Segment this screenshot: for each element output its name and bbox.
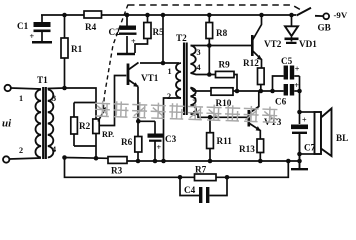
diode VD1 (285, 15, 318, 49)
svg-text:5: 5 (193, 94, 197, 103)
svg-text:R2: R2 (79, 121, 91, 131)
node C4 branch right (225, 175, 230, 180)
wire T2 pin2 down to ground rail (164, 98, 182, 161)
svg-text:R12: R12 (243, 58, 259, 68)
resistor R7 (195, 165, 217, 181)
resistor R1 (61, 15, 83, 88)
resistor R4 (84, 11, 102, 32)
svg-text:+: + (295, 65, 300, 74)
node output tee (297, 110, 302, 115)
resistor R8 (206, 15, 228, 75)
switch and battery terminal (297, 8, 348, 33)
node midpoint riser (270, 89, 275, 94)
watermark company text (95, 101, 278, 123)
svg-text:1: 1 (19, 94, 23, 103)
resistor R6 (121, 121, 142, 161)
capacitor C7 (291, 116, 316, 170)
svg-text:R3: R3 (111, 166, 123, 176)
svg-text:R7: R7 (195, 165, 207, 175)
node R11 top (208, 115, 213, 120)
potentiometer RP (74, 103, 114, 159)
svg-text:T2: T2 (176, 33, 187, 43)
resistor R13 (239, 139, 264, 161)
wire feedback rail (65, 158, 289, 178)
wire R2 RP bottoms (74, 145, 97, 147)
svg-text:R13: R13 (239, 144, 255, 154)
svg-text:ui: ui (2, 118, 12, 130)
capacitor C1 (17, 15, 52, 42)
node output riser C6 (297, 89, 302, 94)
wire VT1 emitter down (137, 87, 139, 122)
svg-text:R8: R8 (216, 28, 228, 38)
wire emitter node to C3 (138, 120, 155, 122)
resistor R10 (191, 88, 234, 109)
svg-text:C6: C6 (275, 97, 287, 107)
input terminal top (5, 85, 42, 91)
svg-text:R11: R11 (217, 136, 233, 146)
svg-text:C1: C1 (17, 21, 29, 31)
svg-text:3: 3 (197, 48, 201, 57)
dashed coupling line to volume pot (103, 5, 128, 113)
wire VT1 collector to T2 pin1 (140, 62, 179, 64)
svg-text:+: + (157, 143, 162, 152)
svg-text:C4: C4 (184, 185, 196, 195)
capacitor C2 (109, 15, 137, 54)
wire T1 secondary top (48, 88, 97, 103)
svg-text:VT1: VT1 (141, 73, 159, 83)
svg-text:VD1: VD1 (299, 39, 317, 49)
node collector junction (161, 61, 166, 66)
svg-text:3: 3 (52, 94, 56, 103)
node C4 branch left (178, 175, 183, 180)
speaker BL (315, 109, 349, 157)
svg-text:4: 4 (197, 63, 201, 72)
node R9 riser on midpoint wire (235, 89, 240, 94)
svg-text:+: + (30, 32, 35, 41)
transistor VT2 (252, 15, 281, 68)
wire output to speaker top (300, 111, 315, 113)
transistor VT1 (128, 63, 159, 88)
svg-text:BL: BL (336, 133, 348, 143)
resistor R2 (71, 103, 91, 147)
transformer T1 (19, 75, 56, 159)
transformer T2 (167, 33, 201, 118)
capacitor C4 (180, 177, 227, 203)
svg-text:4: 4 (52, 145, 56, 154)
dashed coupling line top (128, 5, 301, 10)
svg-text:2: 2 (19, 146, 23, 155)
resistor R5 (135, 15, 164, 53)
svg-text:+: + (294, 81, 299, 90)
wire T2 pin6 to VT3 base (191, 114, 249, 117)
svg-text:C5: C5 (281, 56, 293, 66)
svg-text:C3: C3 (165, 134, 177, 144)
wire midpoint to C5 (273, 76, 284, 91)
wire rail drop to collector node (162, 15, 164, 63)
node R8 foot (207, 43, 212, 48)
svg-text:R1: R1 (71, 44, 83, 54)
capacitor C5 (281, 56, 300, 80)
svg-text:-9V: -9V (334, 10, 348, 20)
node ground rail junctions (62, 155, 302, 163)
svg-text:R9: R9 (219, 60, 231, 70)
node R8 foot on pin4 wire (207, 72, 212, 77)
svg-text:R4: R4 (85, 22, 97, 32)
wire midpoint rail (233, 90, 284, 92)
svg-text:R6: R6 (121, 137, 133, 147)
node speaker bottom tap (297, 152, 302, 157)
capacitor C6 (275, 81, 300, 107)
input terminal bottom (3, 156, 41, 162)
svg-text:2: 2 (167, 92, 171, 101)
svg-text:R10: R10 (216, 98, 232, 108)
svg-text:RP.: RP. (102, 130, 114, 139)
resistor R3 (108, 157, 127, 176)
wire ground rail (65, 158, 300, 162)
svg-text:+: + (302, 116, 307, 125)
resistor R12 (243, 58, 264, 91)
node midpoint R12 (259, 89, 264, 94)
resistor R9 (191, 60, 238, 92)
node top rail junctions (62, 13, 294, 18)
svg-text:VT2: VT2 (264, 39, 282, 49)
node T1 secondary top (62, 86, 67, 91)
resistor R11 (207, 117, 233, 161)
wire T2 pin3 to VT2 base (191, 45, 252, 47)
svg-text:T1: T1 (37, 75, 48, 85)
wire RP wiper riser to VT1 base (100, 76, 126, 126)
svg-text:GB: GB (318, 23, 331, 33)
transistor VT3 (249, 91, 282, 139)
wire speaker bottom return (300, 153, 315, 155)
node emitter junction (136, 119, 141, 124)
wire output riser (299, 76, 301, 169)
svg-text:1: 1 (168, 67, 172, 76)
capacitor C3 (148, 121, 177, 161)
wire top supply rail (41, 14, 296, 16)
